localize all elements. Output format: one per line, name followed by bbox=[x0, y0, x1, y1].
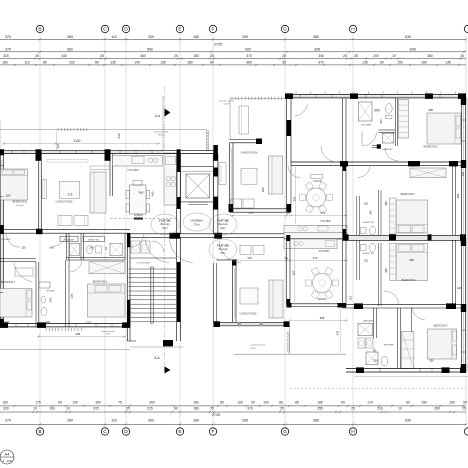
svg-text:C: C bbox=[103, 429, 107, 435]
svg-text:BEDROOM 1: BEDROOM 1 bbox=[424, 146, 439, 149]
svg-text:150: 150 bbox=[421, 401, 427, 405]
svg-text:110: 110 bbox=[349, 295, 353, 300]
svg-text:360: 360 bbox=[139, 191, 144, 195]
svg-text:180: 180 bbox=[317, 401, 323, 405]
svg-text:150: 150 bbox=[397, 60, 403, 64]
svg-text:10: 10 bbox=[33, 407, 37, 411]
svg-text:25: 25 bbox=[35, 54, 39, 58]
svg-text:440: 440 bbox=[151, 191, 155, 196]
svg-text:G: G bbox=[283, 27, 287, 33]
svg-text:200: 200 bbox=[374, 108, 380, 112]
svg-text:F: F bbox=[212, 429, 215, 435]
svg-text:360: 360 bbox=[246, 60, 252, 64]
svg-text:340: 340 bbox=[61, 54, 67, 58]
svg-text:25: 25 bbox=[354, 54, 358, 58]
svg-text:360: 360 bbox=[67, 35, 73, 39]
svg-text:490: 490 bbox=[261, 187, 265, 192]
svg-text:BEDROOM 2: BEDROOM 2 bbox=[433, 325, 448, 328]
svg-text:FLAT 303: FLAT 303 bbox=[217, 244, 229, 248]
svg-text:3bed apt: 3bed apt bbox=[218, 248, 228, 251]
svg-text:180: 180 bbox=[193, 35, 199, 39]
svg-text:220: 220 bbox=[377, 407, 383, 411]
svg-text:10: 10 bbox=[398, 407, 402, 411]
svg-text:F: F bbox=[212, 27, 215, 33]
svg-text:375: 375 bbox=[68, 192, 73, 196]
svg-text:355: 355 bbox=[317, 407, 323, 411]
svg-text:350: 350 bbox=[434, 407, 440, 411]
svg-text:590: 590 bbox=[147, 47, 153, 51]
svg-text:370: 370 bbox=[313, 256, 318, 260]
svg-text:25: 25 bbox=[280, 407, 284, 411]
svg-text:630: 630 bbox=[405, 35, 411, 39]
svg-text:wt-suite: wt-suite bbox=[16, 204, 24, 207]
svg-text:75: 75 bbox=[118, 401, 122, 405]
svg-text:365: 365 bbox=[384, 201, 388, 206]
svg-text:E: E bbox=[178, 429, 181, 435]
svg-text:365: 365 bbox=[456, 193, 460, 198]
svg-text:365: 365 bbox=[293, 196, 297, 201]
svg-text:160: 160 bbox=[449, 401, 455, 405]
svg-text:160: 160 bbox=[2, 60, 8, 64]
svg-text:25: 25 bbox=[343, 54, 347, 58]
svg-text:110: 110 bbox=[364, 258, 369, 262]
svg-text:A4: A4 bbox=[5, 452, 11, 457]
svg-text:360: 360 bbox=[140, 54, 146, 58]
svg-text:BEDROOM 2: BEDROOM 2 bbox=[401, 193, 416, 196]
svg-text:345: 345 bbox=[318, 54, 324, 58]
svg-text:C: C bbox=[103, 27, 107, 33]
svg-text:8.70m²: 8.70m² bbox=[105, 332, 111, 335]
svg-text:630: 630 bbox=[405, 419, 411, 423]
svg-text:370: 370 bbox=[246, 54, 252, 58]
svg-text:350: 350 bbox=[429, 359, 434, 363]
svg-text:25: 25 bbox=[282, 54, 286, 58]
svg-text:160: 160 bbox=[45, 320, 50, 324]
svg-text:KITCHEN: KITCHEN bbox=[128, 169, 139, 172]
svg-text:170: 170 bbox=[367, 401, 373, 405]
svg-text:85: 85 bbox=[295, 401, 299, 405]
svg-text:135: 135 bbox=[362, 60, 368, 64]
svg-text:395: 395 bbox=[242, 35, 248, 39]
svg-text:110: 110 bbox=[111, 35, 117, 39]
svg-text:LAUNDRY: LAUNDRY bbox=[64, 238, 75, 241]
svg-text:covered veranda: covered veranda bbox=[219, 101, 235, 103]
svg-text:240: 240 bbox=[369, 210, 373, 215]
svg-text:370: 370 bbox=[247, 407, 253, 411]
svg-text:H: H bbox=[351, 429, 355, 435]
svg-text:145: 145 bbox=[89, 246, 94, 250]
svg-text:180: 180 bbox=[193, 419, 199, 423]
svg-text:FLAT 302: FLAT 302 bbox=[217, 219, 229, 223]
svg-text:530: 530 bbox=[117, 133, 121, 138]
svg-text:300: 300 bbox=[149, 401, 155, 405]
svg-text:380: 380 bbox=[428, 108, 433, 112]
svg-text:320: 320 bbox=[4, 320, 9, 324]
svg-text:100: 100 bbox=[457, 286, 462, 290]
svg-text:BEDROOM 1: BEDROOM 1 bbox=[402, 279, 417, 282]
svg-text:160: 160 bbox=[2, 401, 8, 405]
svg-text:25: 25 bbox=[351, 407, 355, 411]
svg-text:175: 175 bbox=[35, 401, 41, 405]
svg-text:110: 110 bbox=[111, 419, 117, 423]
svg-text:80: 80 bbox=[43, 60, 47, 64]
svg-text:2bed apt: 2bed apt bbox=[218, 223, 228, 226]
svg-text:100: 100 bbox=[72, 401, 78, 405]
svg-text:160: 160 bbox=[421, 60, 427, 64]
svg-text:215: 215 bbox=[147, 407, 153, 411]
svg-text:200: 200 bbox=[69, 60, 75, 64]
svg-text:25: 25 bbox=[286, 211, 290, 215]
svg-text:GUEST WC: GUEST WC bbox=[88, 239, 100, 241]
svg-text:E: E bbox=[178, 27, 181, 33]
svg-text:3bed apt: 3bed apt bbox=[160, 223, 170, 226]
svg-text:SHOWER: SHOWER bbox=[1, 239, 11, 241]
svg-text:covered veranda: covered veranda bbox=[154, 131, 169, 134]
svg-text:640: 640 bbox=[410, 47, 416, 51]
svg-text:G: G bbox=[283, 429, 287, 435]
svg-text:370: 370 bbox=[70, 293, 74, 298]
svg-text:370: 370 bbox=[249, 211, 254, 215]
svg-text:135: 135 bbox=[160, 60, 166, 64]
svg-text:60: 60 bbox=[174, 407, 178, 411]
svg-text:2725: 2725 bbox=[214, 42, 222, 46]
svg-text:140: 140 bbox=[134, 60, 140, 64]
svg-text:180: 180 bbox=[193, 54, 199, 58]
svg-text:279m²: 279m² bbox=[193, 224, 200, 227]
svg-text:240: 240 bbox=[48, 297, 52, 302]
svg-text:380: 380 bbox=[313, 35, 319, 39]
svg-text:370: 370 bbox=[5, 47, 11, 51]
svg-text:370: 370 bbox=[5, 35, 11, 39]
svg-text:495: 495 bbox=[75, 332, 80, 336]
svg-text:360: 360 bbox=[384, 268, 388, 273]
svg-text:95m²: 95m² bbox=[162, 227, 168, 230]
svg-text:85: 85 bbox=[220, 401, 224, 405]
svg-text:245: 245 bbox=[336, 330, 340, 335]
svg-text:1 : 100: 1 : 100 bbox=[2, 459, 12, 463]
svg-text:395: 395 bbox=[242, 419, 248, 423]
svg-text:240: 240 bbox=[379, 119, 383, 124]
svg-text:135: 135 bbox=[445, 60, 451, 64]
svg-text:315: 315 bbox=[93, 407, 99, 411]
svg-text:BEDROOM 2: BEDROOM 2 bbox=[1, 281, 16, 284]
svg-text:25: 25 bbox=[126, 407, 130, 411]
svg-text:370: 370 bbox=[5, 419, 11, 423]
svg-text:B: B bbox=[38, 429, 41, 435]
svg-text:10.5m²: 10.5m² bbox=[223, 102, 230, 105]
svg-text:50: 50 bbox=[251, 401, 255, 405]
svg-text:25: 25 bbox=[174, 54, 178, 58]
svg-text:KITCHEN: KITCHEN bbox=[320, 220, 331, 223]
svg-text:LAUNDRY: LAUNDRY bbox=[363, 319, 374, 322]
svg-text:370: 370 bbox=[318, 60, 324, 64]
svg-text:BEDROOM 3: BEDROOM 3 bbox=[93, 281, 108, 284]
svg-text:LIVING ROOM: LIVING ROOM bbox=[56, 200, 73, 203]
svg-text:D: D bbox=[124, 27, 128, 33]
svg-text:KITCHEN: KITCHEN bbox=[319, 250, 330, 253]
svg-text:LIVING ROOM: LIVING ROOM bbox=[240, 313, 257, 316]
svg-text:180: 180 bbox=[187, 60, 193, 64]
svg-text:10: 10 bbox=[392, 54, 396, 58]
svg-text:SHOWER: SHOWER bbox=[46, 291, 55, 293]
svg-text:360: 360 bbox=[67, 47, 73, 51]
svg-text:10: 10 bbox=[66, 407, 70, 411]
svg-text:220: 220 bbox=[373, 359, 378, 363]
svg-text:160: 160 bbox=[49, 407, 55, 411]
svg-text:60: 60 bbox=[58, 401, 62, 405]
svg-text:200: 200 bbox=[373, 54, 379, 58]
svg-text:60: 60 bbox=[210, 60, 214, 64]
svg-text:90: 90 bbox=[341, 401, 345, 405]
svg-text:180: 180 bbox=[193, 407, 199, 411]
svg-text:60: 60 bbox=[380, 60, 384, 64]
svg-text:110: 110 bbox=[21, 246, 26, 250]
svg-text:SHOWER: SHOWER bbox=[384, 345, 394, 347]
svg-text:355: 355 bbox=[320, 316, 325, 320]
svg-text:H: H bbox=[351, 27, 355, 33]
svg-text:A-A: A-A bbox=[154, 356, 160, 360]
svg-text:110: 110 bbox=[24, 60, 29, 64]
svg-text:B: B bbox=[38, 27, 41, 33]
svg-text:380: 380 bbox=[427, 54, 433, 58]
svg-text:85: 85 bbox=[279, 401, 283, 405]
svg-text:315: 315 bbox=[86, 320, 91, 324]
svg-text:135: 135 bbox=[110, 60, 116, 64]
svg-text:DINING: DINING bbox=[134, 214, 143, 217]
svg-text:90: 90 bbox=[463, 401, 467, 405]
svg-text:320: 320 bbox=[3, 407, 9, 411]
svg-text:320: 320 bbox=[3, 54, 9, 58]
svg-text:345: 345 bbox=[314, 47, 320, 51]
svg-text:1140: 1140 bbox=[74, 139, 81, 143]
svg-text:LIVING ROOM: LIVING ROOM bbox=[241, 152, 258, 155]
svg-text:25: 25 bbox=[210, 54, 214, 58]
svg-text:SHOWER: SHOWER bbox=[361, 125, 371, 127]
svg-text:DINING: DINING bbox=[318, 298, 327, 301]
svg-text:82m²: 82m² bbox=[220, 227, 226, 230]
svg-text:100: 100 bbox=[237, 401, 243, 405]
svg-text:FLAT 301: FLAT 301 bbox=[159, 219, 171, 223]
svg-text:25: 25 bbox=[210, 407, 214, 411]
svg-text:LAUNDRY: LAUNDRY bbox=[382, 148, 393, 151]
svg-text:360: 360 bbox=[409, 258, 414, 262]
svg-text:360: 360 bbox=[67, 419, 73, 423]
svg-text:ΥΛΟΜΜΕΗ: ΥΛΟΜΜΕΗ bbox=[190, 220, 203, 223]
svg-text:180: 180 bbox=[193, 401, 199, 405]
svg-text:A-A: A-A bbox=[155, 114, 161, 118]
svg-text:D: D bbox=[124, 429, 128, 435]
svg-text:2725: 2725 bbox=[212, 413, 220, 417]
svg-text:420: 420 bbox=[245, 47, 251, 51]
svg-text:covered veranda: covered veranda bbox=[251, 345, 267, 347]
svg-text:BEDROOM 1: BEDROOM 1 bbox=[12, 200, 28, 203]
svg-text:35: 35 bbox=[282, 60, 286, 64]
svg-text:160: 160 bbox=[95, 401, 101, 405]
svg-text:370: 370 bbox=[247, 256, 252, 260]
svg-text:80: 80 bbox=[95, 60, 99, 64]
svg-text:380: 380 bbox=[313, 419, 319, 423]
svg-text:300: 300 bbox=[148, 35, 154, 39]
svg-text:100: 100 bbox=[263, 401, 269, 405]
svg-text:160: 160 bbox=[372, 348, 376, 353]
svg-text:GUEST WC: GUEST WC bbox=[363, 253, 375, 255]
svg-text:320: 320 bbox=[6, 194, 11, 198]
svg-text:300: 300 bbox=[148, 419, 154, 423]
svg-text:60: 60 bbox=[406, 401, 410, 405]
svg-text:18.0m²: 18.0m² bbox=[158, 133, 164, 136]
svg-text:8,7m²: 8,7m² bbox=[251, 347, 256, 350]
svg-text:110: 110 bbox=[364, 202, 369, 206]
svg-text:ΛΟΥΟΜ. ΔΡΕΑ: ΛΟΥΟΜ. ΔΡΕΑ bbox=[137, 262, 151, 265]
svg-text:25: 25 bbox=[462, 407, 466, 411]
svg-text:GUEST WC: GUEST WC bbox=[363, 222, 375, 224]
